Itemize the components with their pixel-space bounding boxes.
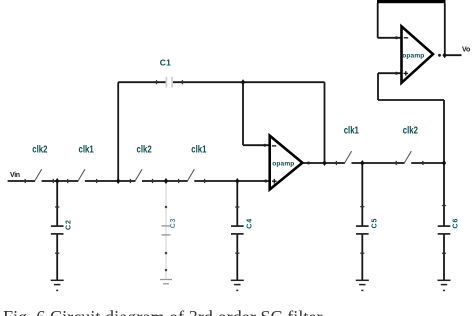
switch S5 clk1 blade: [345, 151, 352, 162]
ground C3 (faint): [160, 280, 172, 284]
op-amp U1 minus mark: [272, 145, 276, 147]
op-amp U1 triangle: [270, 136, 303, 190]
wire U2 minus input horizontal: [378, 37, 402, 39]
svg-text:clk2: clk2: [32, 144, 47, 155]
capacitor C6 plates: [438, 226, 451, 234]
ground under C5: [356, 280, 369, 290]
ground under C2: [51, 280, 64, 290]
op-amp U2 minus mark: [404, 37, 408, 39]
wire U2 plus loop bottom horizontal: [378, 99, 444, 101]
switch S1 clk2 blade: [35, 169, 42, 180]
switch S2 clk1 blade: [78, 169, 85, 180]
capacitor C3 pin dots: [165, 206, 167, 271]
wire C1 top left: [118, 81, 165, 83]
capacitor C2 plates: [51, 226, 64, 234]
svg-text:opamp: opamp: [402, 52, 424, 59]
wire main line seg2: [42, 180, 79, 182]
pin ticks horizontal on cap branches: [55, 206, 446, 254]
wire C2 branch lower: [56, 234, 58, 280]
svg-text:C3: C3: [170, 218, 177, 229]
wire U2 plus loop vertical left: [377, 73, 379, 100]
wire U2 plus input horizontal: [378, 72, 402, 74]
svg-text:clk1: clk1: [191, 144, 206, 155]
svg-text:C2: C2: [66, 219, 73, 230]
wire to U1 minus vertical: [242, 82, 244, 145]
svg-text:clk2: clk2: [137, 144, 152, 155]
capacitor C3 faint branch wire: [165, 182, 167, 280]
wire U1 output seg1: [302, 162, 345, 164]
wire C2 branch upper: [56, 181, 58, 226]
svg-text:clk2: clk2: [403, 124, 418, 135]
switch S6 clk2 blade: [405, 151, 412, 162]
svg-text:Fig. 6 Circuit diagram of 3rd: Fig. 6 Circuit diagram of 3rd order SC f…: [3, 307, 323, 316]
svg-text:Vo: Vo: [462, 47, 470, 54]
wire U1 output seg2: [352, 162, 405, 164]
svg-text:C6: C6: [453, 218, 460, 229]
op-amp pin dots: [263, 36, 441, 182]
capacitor C4 plates: [231, 226, 244, 234]
switch S3 clk2 blade: [135, 169, 142, 180]
wire U1 output seg3: [411, 162, 444, 164]
ground under C4: [231, 280, 244, 290]
op-amp U1 plus mark: [272, 179, 277, 184]
svg-text:Vin: Vin: [10, 172, 20, 179]
wire Vo output stub: [445, 54, 462, 56]
wire U1 minus input horizontal: [243, 144, 270, 146]
wire C5 branch upper: [361, 163, 363, 226]
svg-text:C1: C1: [160, 58, 171, 68]
svg-text:clk1: clk1: [79, 144, 94, 155]
wire C1 right vertical to U1 output: [324, 82, 326, 163]
wire U2 top feedback thick bar: [377, 0, 446, 3]
svg-text:clk1: clk1: [344, 124, 359, 135]
ground under C6: [438, 280, 451, 290]
op-amp U2 plus mark: [404, 71, 409, 76]
wire main line seg4: [142, 180, 188, 182]
wire C4 branch lower: [236, 234, 238, 280]
wire C1 top right: [173, 81, 325, 83]
wire right vertical C6 branch lower: [443, 234, 445, 280]
switch S4 clk1 blade: [188, 169, 195, 180]
junction dots (diamonds): [55, 52, 447, 184]
svg-text:C4: C4: [247, 218, 254, 229]
pin ticks vertical: [25, 80, 423, 183]
wire C1 left vertical: [117, 82, 119, 181]
svg-text:C5: C5: [372, 218, 379, 229]
wire U2 feedback vertical right: [444, 3, 446, 54]
wire C5 branch lower: [361, 234, 363, 280]
wire main line seg5 to U1 plus input: [194, 180, 269, 182]
wire C4 branch upper: [236, 181, 238, 226]
wire right vertical C6 branch upper: [443, 100, 445, 226]
capacitor C5 plates: [356, 226, 369, 234]
svg-text:opamp: opamp: [272, 161, 294, 168]
op-amp U2 triangle: [402, 26, 434, 82]
wire U2 minus feedback vertical left: [377, 3, 379, 38]
wire main line seg3: [85, 180, 135, 182]
wire main input line seg1: [8, 180, 35, 182]
capacitor C1 plates (faint): [166, 77, 172, 88]
capacitor C3 plates (faint): [162, 226, 171, 235]
